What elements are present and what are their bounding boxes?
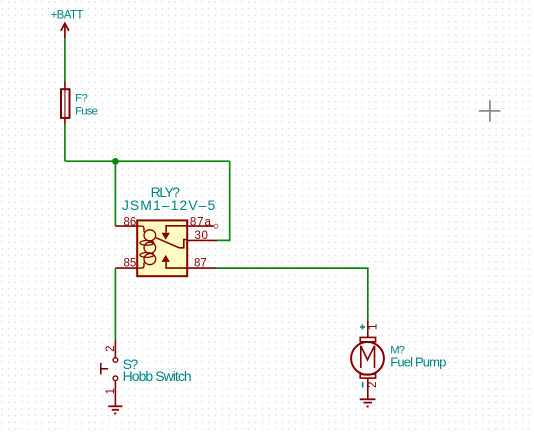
junction [112,158,119,165]
svg-text:87: 87 [194,257,207,269]
svg-text:+BATT: +BATT [51,9,84,21]
svg-text:Fuse: Fuse [75,106,98,118]
motor M? [351,320,384,399]
relay pin 87a [187,216,218,228]
wire horizontal to right [65,160,230,162]
svg-text:JSM1–12V–5: JSM1–12V–5 [122,197,217,213]
wire fuse down [64,125,66,161]
relay pin 85 [115,257,137,269]
svg-text:87a: 87a [190,216,212,228]
wire relay pin 85 down to switch [114,268,116,340]
svg-text:F?: F? [75,92,87,104]
svg-text:2: 2 [105,345,117,351]
motor pin 2 name - [362,382,364,388]
svg-text:86: 86 [124,216,137,228]
svg-text:2: 2 [367,382,379,388]
fuse F? [61,81,70,125]
svg-text:Hobb Switch: Hobb Switch [123,368,191,384]
svg-text:1: 1 [367,323,379,329]
relay pin 87 [187,257,216,269]
ground under motor [360,399,376,406]
crosshair marker [479,100,501,121]
svg-text:30: 30 [195,230,209,242]
wire right vertical down [217,161,230,240]
wire junction down to relay pin 86 [114,161,116,226]
relay RLY? body [137,220,187,276]
wire +BATT to fuse [64,38,66,81]
relay pin 86 [115,216,137,228]
svg-text:Fuel Pump: Fuel Pump [390,355,446,370]
wire relay pin 87 to motor [216,268,368,320]
svg-text:1: 1 [105,388,117,394]
motor pin 1 name + [360,324,365,329]
relay pin 30 [187,230,217,242]
ground under switch [108,406,122,413]
svg-text:85: 85 [124,257,137,269]
switch S? [101,341,118,406]
power symbol +BATT [51,9,84,38]
